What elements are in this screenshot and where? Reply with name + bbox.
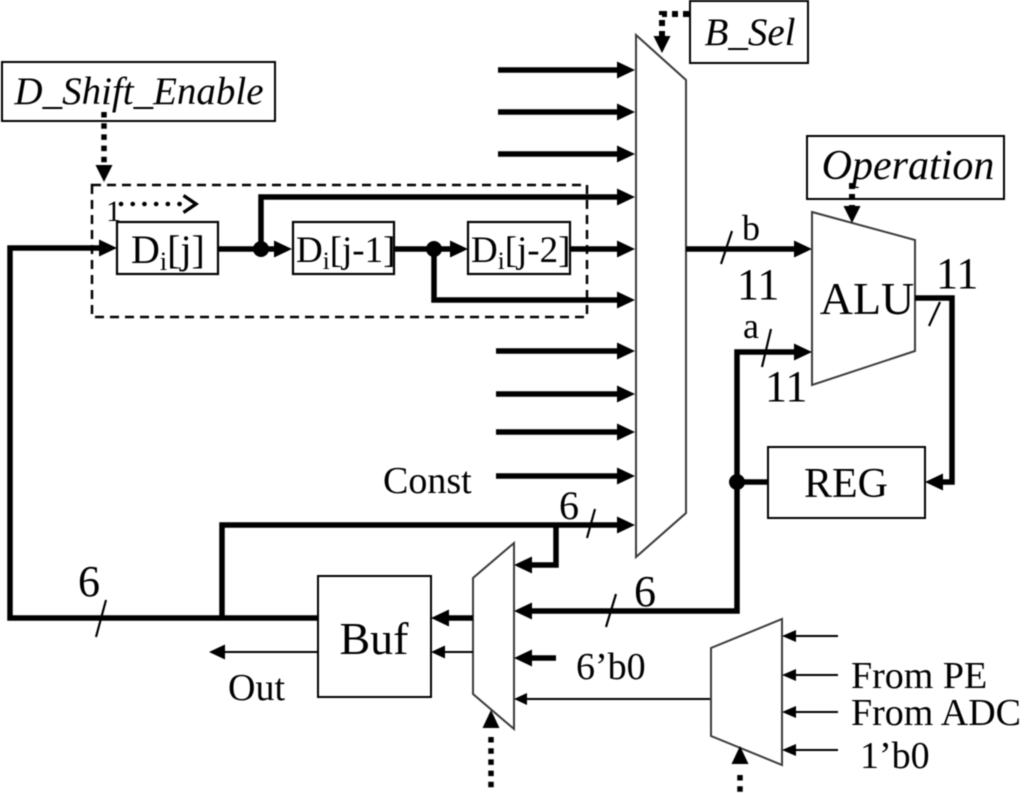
wire junction down to mux B input 6 [434,249,635,309]
wire Out mux to Buf (data) [431,610,473,627]
svg-text:Buf: Buf [340,613,410,664]
wire Out [209,645,318,660]
svg-text:a: a [743,306,759,346]
wire 6'b0 stub [514,650,556,667]
svg-text:11: 11 [765,362,807,411]
control box Operation [807,136,1004,199]
source mux input 1 [782,630,838,642]
bus slash (a) [762,329,771,367]
svg-text:Di[j-2]: Di[j-2] [471,230,570,275]
wire loop branch to mux B input 11 [222,517,635,619]
wire D_i[j] to D_i[j-1] [218,241,292,258]
dotted select wire D_Shift_Enable [96,112,113,182]
wire Out mux to Buf (thin) [431,646,473,659]
svg-text:B_Sel: B_Sel [705,11,796,54]
wire mux B input 3 [498,146,635,163]
junction dot REG output [729,474,745,490]
source mux input 4 [782,744,838,756]
svg-text:Di[j-1]: Di[j-1] [296,230,395,275]
wire mux B input 2 [498,104,635,121]
shift register bank dashed box [92,185,587,317]
register D_i[j-1] [293,222,395,275]
dotted select wire Operation [844,183,861,223]
wire mux B input 7 [496,343,635,360]
wire D_i[j-2] to mux B input 5 [570,241,635,258]
wire junction up to mux B input 4 [261,189,635,250]
wire feedback loop (Buf output left and up) [10,248,318,618]
dotted shift direction arrow [121,196,196,213]
svg-text:6: 6 [634,567,656,616]
wire mux B input 10 (Const) [496,468,635,485]
dotted select wire source mux [732,746,749,793]
wire source mux to Out mux input 4 [514,693,711,705]
bus slash (mux input 11) [587,509,595,538]
svg-text:Const: Const [383,460,472,502]
wire ALU output to REG [915,298,952,491]
wire mux B input 8 [496,386,635,403]
dotted select wire Out mux [483,710,500,793]
control box D_Shift_Enable [2,62,275,121]
ALU [812,212,915,385]
svg-text:1’b0: 1’b0 [860,735,930,777]
mux source (bottom right) [711,619,782,765]
dotted select wire B_Sel [654,14,690,53]
svg-text:Operation: Operation [822,143,995,189]
wire mux B input 9 [496,424,635,441]
svg-text:11: 11 [737,260,779,309]
bus slash (ALU output) [929,302,940,326]
junction dot after D_i[j] [253,241,269,257]
wire junction to REG input [737,479,768,485]
wire a into ALU [737,344,812,483]
junction dot after D_i[j-1] [426,241,442,257]
wire junction down to Out mux input 2 [514,482,737,620]
bus slash (feedback) [96,600,106,637]
mux Out [473,543,514,729]
svg-text:6: 6 [559,483,579,528]
register D_i[j-2] [468,222,570,275]
svg-text:11: 11 [936,249,978,298]
wire mux B output b [686,241,812,258]
buffer Buf [318,576,431,697]
bus slash (REG to Out mux) [606,594,616,627]
svg-text:REG: REG [804,461,888,507]
wire arrowhead into D_i[j] [99,240,117,257]
mux B [636,35,686,557]
wire D_i[j-1] to D_i[j-2] [394,241,468,258]
register REG [768,447,925,518]
svg-text:Di[j]: Di[j] [131,227,205,276]
wire mux B input 1 [498,62,635,79]
bus slash (b) [721,231,732,264]
svg-text:D_Shift_Enable: D_Shift_Enable [13,70,263,113]
register D_i[j] [117,222,218,276]
svg-text:Out: Out [228,667,285,709]
svg-text:b: b [742,208,760,248]
svg-text:6: 6 [78,557,100,606]
wire branch down to Out mux input 1 [514,525,556,574]
svg-text:6’b0: 6’b0 [576,646,646,688]
svg-text:From ADC: From ADC [851,692,1021,734]
svg-text:ALU: ALU [820,273,915,324]
control box B_Sel [690,1,808,63]
source mux input 3 [782,706,838,718]
source mux input 2 [782,669,838,681]
svg-text:From PE: From PE [851,655,987,697]
